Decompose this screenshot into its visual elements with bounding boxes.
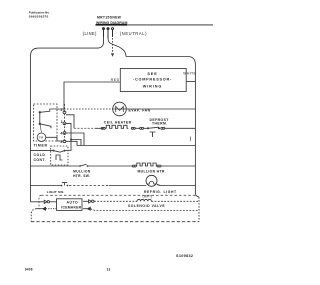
wire: line rail top curve (31, 48, 94, 56)
timer box dashed (34, 104, 57, 141)
svg-text:TIMER: TIMER (34, 144, 48, 148)
svg-text:9406: 9406 (25, 267, 33, 271)
light switch dot right (67, 185, 69, 187)
svg-text:HTR. SW.: HTR. SW. (73, 174, 90, 178)
svg-text:MULLION HTR.: MULLION HTR. (138, 169, 167, 173)
ground arrow (111, 53, 114, 56)
junction dot T1/neutral branch (70, 139, 72, 141)
left rail (30, 56, 32, 202)
mullion switch blade (80, 164, 87, 166)
svg-text:(LINE): (LINE) (83, 31, 97, 36)
svg-text:WIRING DIAGRAM: WIRING DIAGRAM (96, 21, 127, 25)
bottom dashed return row (31, 221, 199, 223)
solenoid feed dashed (94, 200, 137, 202)
svg-text:AUTO: AUTO (67, 201, 79, 205)
T3 wire down (66, 141, 77, 145)
svg-text:CEIL HEATER: CEIL HEATER (104, 121, 132, 125)
compressor white wire (186, 81, 195, 83)
timer blade upper (40, 109, 64, 112)
cold control blade (54, 151, 65, 153)
ceil heater right terminal (131, 127, 133, 129)
ceil heater element (105, 125, 128, 128)
timer pole link (39, 112, 41, 124)
cold control box dashed (51, 146, 68, 165)
svg-text:MULLION: MULLION (73, 169, 91, 173)
defrost therm terminal left (140, 127, 142, 129)
compressor box U1 (120, 69, 186, 92)
timer neutral row to right rail (77, 145, 195, 147)
svg-text:SEE: SEE (147, 72, 157, 76)
timer blade lower (40, 124, 51, 129)
neutral branch of timer (71, 140, 81, 146)
defrost therm contact dots (147, 127, 149, 129)
evap fan feed dashed (64, 108, 113, 110)
icemaker return connector female (43, 207, 46, 210)
defrost therm body bracket (150, 132, 156, 137)
cold control bellows (56, 155, 63, 160)
svg-text:13: 13 (107, 267, 111, 271)
svg-text:1: 1 (61, 120, 63, 124)
header rule (96, 24, 213, 26)
small stub above neutral row (190, 137, 192, 142)
svg-text:WHITE: WHITE (183, 71, 196, 75)
refrig light lamp (146, 175, 157, 186)
svg-text:2: 2 (60, 108, 62, 112)
compressor feed wire (RED) (64, 82, 120, 111)
right rail bottom hook to icemaker dashed net (195, 193, 199, 197)
timer pole dot A (39, 111, 41, 113)
wire: line prong lead S-curve (94, 37, 104, 48)
svg-text:S109832: S109832 (176, 254, 193, 258)
evap fan motor M circle (113, 102, 127, 116)
evap fan to rail (126, 108, 195, 110)
wire: neutral prong lead S-curve (108, 38, 126, 57)
svg-text:WIRING: WIRING (143, 85, 163, 89)
auto icemaker box (57, 199, 83, 211)
svg-text:TM: TM (39, 136, 44, 140)
svg-text:RED: RED (111, 78, 120, 82)
right rail (194, 65, 196, 194)
svg-text:-COMPRESSOR-: -COMPRESSOR- (133, 78, 172, 82)
power cord plug prongs (103, 28, 114, 38)
svg-text:EVAP. FAN: EVAP. FAN (129, 109, 151, 113)
svg-text:THERM.: THERM. (152, 122, 168, 126)
defrost row to rail (165, 127, 196, 129)
wire: defrost heater row (74, 127, 95, 129)
svg-text:MRT15DNEW: MRT15DNEW (97, 15, 122, 19)
timer terminal strip dashed edge (64, 104, 66, 141)
light switch plunger (62, 183, 67, 186)
svg-text:CONT.: CONT. (34, 158, 47, 162)
light switch dot left (61, 185, 63, 187)
icemaker feed from rail (31, 201, 44, 203)
svg-text:5995208370: 5995208370 (29, 15, 49, 19)
mullion heater terminal right (157, 165, 159, 167)
light row solid mid (109, 185, 146, 187)
mullion switch dot right (87, 165, 89, 167)
wire: neutral rail top curve (126, 57, 195, 65)
option dashed row above icemaker (41, 194, 198, 196)
T4 wire down (66, 133, 84, 146)
svg-text:ICEMAKER: ICEMAKER (61, 206, 81, 210)
svg-text:REFRIG. LIGHT: REFRIG. LIGHT (144, 190, 177, 194)
light row dashed mid (69, 185, 109, 187)
light row to rail (157, 184, 196, 186)
mullion heater terminal left (132, 165, 134, 167)
ceil heater left terminal (101, 127, 103, 129)
mullion row to rail (161, 165, 195, 167)
timer motor to T3 (46, 137, 63, 141)
defrost therm blade (148, 127, 159, 128)
solenoid valve coil (137, 199, 151, 201)
ground wire dashed (112, 38, 114, 53)
mullion heater row left (31, 165, 80, 167)
timer motor TM (37, 133, 46, 142)
icemaker return to bottom dashed (31, 209, 36, 222)
svg-text:(WPI): (WPI) (143, 195, 153, 199)
cold control contact right (64, 150, 66, 152)
icemaker connector male (44, 200, 47, 203)
svg-text:COLD: COLD (34, 153, 46, 157)
icemaker right pin2 wiring (83, 208, 87, 210)
timer pole dot B (39, 123, 41, 125)
mullion switch dot left (79, 165, 81, 167)
svg-text:3: 3 (60, 140, 62, 144)
light row left (31, 185, 61, 187)
T2 stub to defrost feed (66, 115, 74, 129)
svg-text:(NEUTRAL): (NEUTRAL) (120, 31, 147, 36)
cold control contact left (53, 150, 55, 152)
icemaker right pin1 wiring (83, 200, 88, 202)
svg-text:LIGHT SW.: LIGHT SW. (47, 190, 65, 194)
mullion heater element (136, 163, 157, 166)
T1 wire to cold control (66, 123, 72, 150)
defrost therm terminal right (161, 127, 163, 129)
svg-text:SOLENOID VALVE: SOLENOID VALVE (128, 204, 165, 208)
cold control wire to left rail (31, 150, 54, 152)
